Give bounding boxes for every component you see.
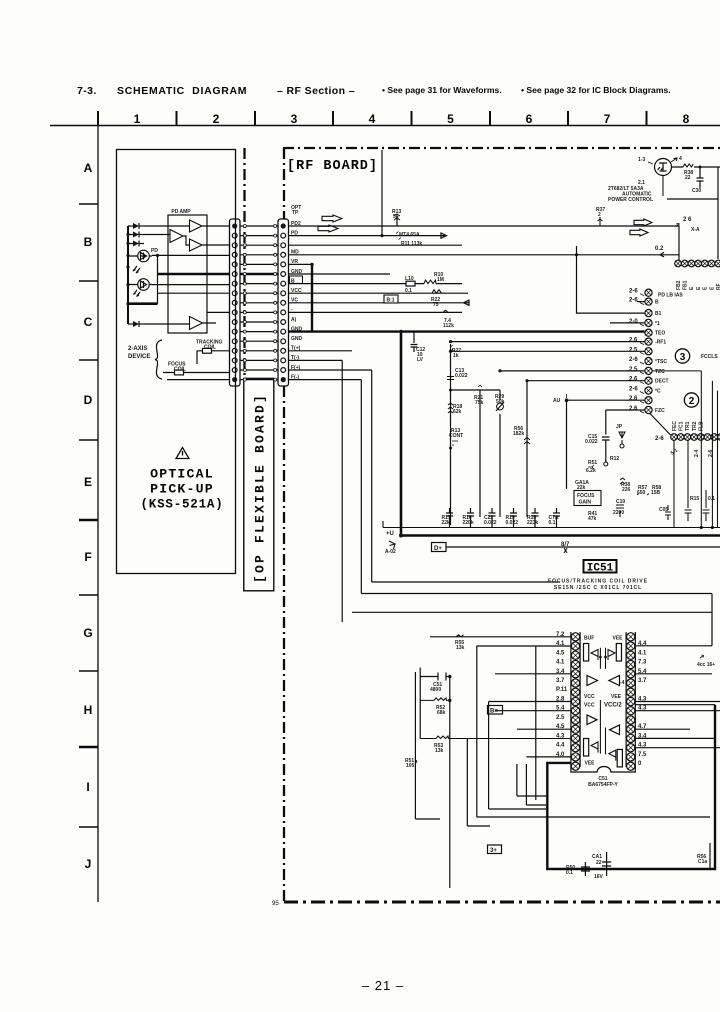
circled number 2	[684, 393, 698, 407]
svg-text:4: 4	[369, 112, 376, 126]
junction dots on chain	[449, 389, 452, 392]
top ruler ticks	[97, 111, 99, 126]
svg-text:[RF BOARD]: [RF BOARD]	[287, 159, 378, 174]
connector pin circles board side	[281, 223, 286, 228]
wire T(+) to feeder	[289, 350, 353, 352]
svg-text:GAIN: GAIN	[579, 500, 592, 506]
svg-text:7: 7	[604, 112, 611, 126]
feeder wire F(-) down	[360, 380, 362, 594]
svg-text:SE15N /2SC C X01CL 701CL: SE15N /2SC C X01CL 701CL	[554, 585, 642, 591]
IC51 boxed designator	[584, 560, 617, 573]
photodiode at y=226	[128, 225, 133, 227]
svg-text:• See page 31 for Waveforms.: • See page 31 for Waveforms.	[382, 85, 502, 95]
svg-text:-4: -4	[620, 680, 625, 686]
svg-text:22k: 22k	[442, 520, 451, 526]
svg-text:RF: RF	[716, 283, 720, 290]
vertical from laser to wire below	[662, 176, 664, 197]
IC51 left pins	[571, 633, 579, 641]
wire F(+) to feeder	[289, 369, 372, 371]
svg-text:7.5: 7.5	[638, 752, 647, 758]
svg-text:2: 2	[598, 212, 601, 218]
wire A	[289, 311, 463, 313]
svg-text:R11 113k: R11 113k	[401, 241, 422, 247]
svg-text:6: 6	[526, 112, 533, 126]
svg-text:2.6: 2.6	[629, 338, 638, 344]
svg-text:FCCLS: FCCLS	[701, 354, 718, 360]
capacitor C10 2200	[616, 505, 624, 517]
svg-text:FOCUS: FOCUS	[577, 493, 595, 499]
wire T(-) to feeder	[289, 359, 343, 361]
svg-text:BA6754FP-Y: BA6754FP-Y	[588, 782, 618, 788]
wire bottom pin 17	[167, 379, 230, 381]
bus wire y=593.5	[361, 594, 712, 646]
svg-text:0.022: 0.022	[585, 439, 598, 445]
flex wire contact circles	[243, 225, 246, 228]
svg-text:2-4: 2-4	[694, 450, 700, 457]
resistor R38 22	[683, 164, 693, 167]
svg-text:4.5: 4.5	[556, 650, 565, 656]
buffer resistor blocks top	[584, 644, 589, 662]
wire VC with resistor R22	[289, 292, 469, 294]
svg-text:4: 4	[679, 156, 682, 162]
svg-text:4.1: 4.1	[556, 660, 565, 666]
op-amp A4	[190, 317, 203, 330]
feeder wire T(-) down	[341, 360, 343, 622]
wire D1 to pin 3	[152, 254, 230, 256]
wire to A2/A3 chain	[144, 235, 230, 246]
svg-text:8: 8	[683, 112, 690, 126]
descending wires to IC51 area	[415, 646, 535, 888]
internal wires bottom	[600, 700, 605, 754]
internal wires top	[600, 648, 605, 669]
inductor L10 0.1	[406, 281, 415, 286]
connector CN101 board-side strip	[278, 219, 289, 386]
photodiode array left rail	[127, 226, 129, 324]
svg-text:0: 0	[638, 761, 642, 767]
svg-text:H: H	[84, 703, 93, 717]
wire PD to RF amp	[289, 233, 447, 238]
svg-text:68k: 68k	[437, 710, 446, 716]
resistor R38b 226	[620, 478, 625, 484]
svg-text:• See page 32 for IC Block Dia: • See page 32 for IC Block Diagrams.	[521, 85, 671, 95]
flexible-board wires between connector strips	[240, 225, 278, 227]
wire stub x382 from top border	[381, 150, 383, 236]
thick ground rail	[401, 534, 720, 537]
net wire AU down from pin	[565, 398, 569, 402]
IC51 left pin strip	[571, 632, 580, 767]
connector CN101 pickup-side strip	[230, 219, 241, 386]
svg-text:0.022: 0.022	[484, 520, 497, 526]
svg-text:+U: +U	[386, 531, 394, 537]
svg-text:VEE: VEE	[613, 636, 624, 642]
circled number 3	[675, 349, 689, 363]
svg-text:2-6: 2-6	[629, 357, 638, 363]
wire MD	[289, 244, 463, 246]
svg-text:PD: PD	[151, 248, 158, 254]
svg-text:A-02: A-02	[385, 549, 396, 555]
svg-text:AU: AU	[553, 398, 561, 404]
svg-text:R51: R51	[588, 460, 597, 466]
IC51 right pins	[627, 633, 635, 641]
component chain R27/C13/R18 vertical	[450, 344, 452, 525]
top ruler line	[50, 125, 720, 127]
svg-text:105: 105	[406, 763, 415, 769]
right edge caps row R15/0.1	[685, 490, 710, 521]
op-amp lower left	[587, 715, 597, 725]
svg-text:E: E	[703, 286, 709, 290]
svg-text:*C: *C	[655, 389, 661, 395]
diode JP with testpoint	[619, 432, 625, 444]
svg-text:650: 650	[637, 490, 646, 496]
svg-text:A): A)	[291, 317, 297, 323]
IC201 pin column circles	[645, 289, 652, 296]
wire F(-) to feeder	[289, 379, 362, 381]
svg-text:IC51: IC51	[587, 563, 614, 575]
resistor R55 13k on pin1 wire	[456, 635, 464, 637]
stub wires at IC pins	[577, 246, 645, 313]
left ruler line	[97, 126, 99, 903]
capacitor C30	[697, 167, 704, 188]
right edge return wires from IC pins	[652, 371, 701, 528]
wires from RC cluster into IC pins	[451, 342, 645, 381]
resistor R29 50k	[499, 390, 501, 517]
svg-text:2-6: 2-6	[655, 436, 664, 442]
svg-text:[OP FLEXIBLE BOARD]: [OP FLEXIBLE BOARD]	[253, 393, 268, 583]
wire box edge to pin 10	[207, 311, 230, 313]
photodiode at y=234.5	[128, 234, 133, 236]
left ruler ticks	[79, 203, 98, 205]
svg-text:7.3: 7.3	[638, 660, 647, 666]
bottom right connector CN row 2	[671, 434, 678, 441]
svg-text:P.11: P.11	[556, 687, 568, 693]
resistor R21 75k	[479, 390, 481, 517]
arrowhead + label 0.2 on VR wire	[660, 252, 664, 256]
svg-text:3.7: 3.7	[638, 678, 647, 684]
PD2 wire corner down to CN pin 1	[678, 226, 680, 260]
svg-text:7-3.: 7-3.	[77, 85, 97, 97]
top right connector CN (to servo board)	[675, 260, 682, 267]
svg-text:22: 22	[685, 175, 691, 181]
svg-text:22: 22	[596, 860, 602, 866]
svg-text:2.6: 2.6	[629, 396, 638, 402]
svg-text:2-6: 2-6	[708, 450, 714, 457]
svg-text:1M: 1M	[437, 277, 444, 283]
wire "-" with boxed net label B1	[289, 300, 470, 305]
op-amp lower right	[610, 725, 620, 735]
svg-text:F: F	[84, 550, 91, 564]
svg-text:2.6: 2.6	[629, 377, 638, 383]
svg-text:4800: 4800	[430, 687, 441, 693]
capacitor C51 4800 cluster	[419, 668, 421, 739]
svg-text:– 21 –: – 21 –	[362, 978, 404, 993]
svg-text:182k: 182k	[513, 431, 524, 437]
signal flow arrow pair near connector	[322, 215, 342, 222]
capacitor C13 0.022	[447, 377, 454, 380]
wire VR (0.2 feedback)	[289, 254, 680, 256]
OP flexible board label box	[244, 378, 274, 590]
svg-text:3.7: 3.7	[556, 678, 565, 684]
svg-text:2.5: 2.5	[629, 347, 638, 353]
svg-text:VCC/2: VCC/2	[604, 703, 622, 709]
svg-text:*TSC: *TSC	[655, 359, 667, 365]
svg-text:R12: R12	[610, 456, 619, 462]
connecting stubs to loop	[415, 796, 710, 826]
svg-text:SCHEMATIC DIAGRAM: SCHEMATIC DIAGRAM	[117, 85, 247, 97]
optical pick-up outline box	[117, 150, 236, 574]
diode symbols bottom	[591, 742, 598, 753]
svg-text:JP: JP	[616, 424, 623, 430]
op-amp A3	[190, 239, 203, 251]
svg-text:COIL: COIL	[204, 344, 216, 350]
resistor R18 62k	[448, 403, 453, 413]
wire laser to right rail	[672, 167, 720, 259]
op-amp A1	[190, 220, 203, 232]
svg-text:95: 95	[272, 901, 279, 907]
svg-text:R15: R15	[690, 496, 699, 502]
svg-text:2200: 2200	[613, 510, 624, 516]
svg-text:TR2: TR2	[692, 421, 698, 431]
bus wire y=612.3	[352, 611, 712, 613]
svg-text:FB1: FB1	[683, 280, 689, 290]
svg-text:PD AMP: PD AMP	[171, 209, 191, 215]
svg-text:226: 226	[622, 487, 631, 493]
resistor R53 13k on pin12 wire	[420, 736, 571, 739]
capacitor C12 below TEO wire	[411, 332, 418, 352]
svg-text:1k: 1k	[453, 353, 459, 359]
laser diode LD circle	[655, 159, 672, 176]
FOCUS GAIN box	[574, 491, 601, 506]
svg-text:J: J	[85, 857, 92, 871]
svg-text:A: A	[84, 161, 93, 175]
rail link to R21/R29	[451, 389, 501, 391]
svg-text:TR1: TR1	[685, 421, 691, 431]
resistor R51 6.2k	[588, 465, 594, 469]
thick feeder from GND bus down	[400, 332, 403, 536]
svg-text:TEO: TEO	[655, 331, 665, 337]
wires out of IC51 right pins	[635, 673, 712, 675]
svg-text:0.1: 0.1	[549, 520, 556, 526]
emission arrows of D1	[133, 266, 140, 273]
svg-text:PD LB IAS: PD LB IAS	[658, 293, 683, 299]
photodiode at y=324	[128, 323, 133, 325]
svg-text:E: E	[709, 286, 715, 290]
svg-text:0.1: 0.1	[566, 870, 573, 876]
svg-text:E: E	[696, 286, 702, 290]
thick wire to pin 6	[158, 273, 230, 276]
svg-text:55: 55	[393, 214, 399, 220]
svg-text:(KSS-521A): (KSS-521A)	[140, 497, 223, 511]
boxed net label 3+	[488, 845, 502, 854]
svg-text:4.4: 4.4	[638, 641, 647, 647]
svg-text:POWER CONTROL: POWER CONTROL	[608, 197, 653, 203]
diode symbols top	[591, 650, 598, 661]
svg-text:B: B	[84, 235, 93, 249]
svg-text:2-AXIS: 2-AXIS	[128, 346, 147, 352]
connector pin circles pickup side	[232, 223, 237, 228]
svg-text:0.1: 0.1	[708, 496, 715, 502]
svg-text:FC1: FC1	[679, 421, 685, 431]
svg-text:B:1: B:1	[387, 297, 395, 303]
wire FZC branch down with C15	[602, 410, 645, 462]
laser diode D1 (monitor) circle	[138, 250, 150, 262]
svg-text:75k: 75k	[475, 400, 484, 406]
brace for 2-axis device	[155, 340, 162, 379]
svg-text:E: E	[84, 475, 92, 489]
svg-text:PICK-UP: PICK-UP	[150, 481, 214, 496]
photodiode at y=243.5	[128, 243, 133, 245]
svg-text:2-6: 2-6	[629, 387, 638, 393]
RF board dash-dot border bottom	[284, 901, 720, 904]
svg-text:0.022: 0.022	[455, 373, 468, 379]
svg-text:C30: C30	[692, 188, 701, 194]
svg-text:OPTICAL: OPTICAL	[150, 467, 214, 482]
junction at B1 riser	[575, 253, 578, 256]
svg-text:LV: LV	[417, 357, 424, 363]
boxed net label D+	[432, 543, 447, 552]
svg-text:1: 1	[134, 112, 141, 126]
wire GND down thick	[289, 263, 313, 265]
svg-text:E: E	[689, 286, 695, 290]
svg-text:8/7: 8/7	[561, 542, 570, 548]
op-amp A2	[170, 230, 183, 243]
resistor R10 1M	[424, 280, 436, 284]
svg-text:223k: 223k	[527, 520, 538, 526]
svg-text:4.4: 4.4	[556, 743, 565, 749]
svg-text:VEE: VEE	[585, 761, 596, 767]
svg-text:B: B	[655, 300, 659, 306]
warning triangle symbol	[176, 448, 189, 459]
wire PD2 long to laser APC	[289, 225, 680, 227]
feeder from F(+) wire to bus 582	[371, 370, 373, 582]
svg-text:2.5: 2.5	[629, 367, 638, 373]
resistor R13 on PD2 line	[396, 216, 398, 226]
svg-text:CONT: CONT	[449, 433, 463, 439]
svg-text:47k: 47k	[588, 516, 597, 522]
thick stub wire bottom of rail	[128, 302, 158, 305]
svg-text:-RF1: -RF1	[655, 340, 666, 346]
svg-text:62k: 62k	[453, 409, 462, 415]
emission arrows of D2	[134, 290, 141, 297]
svg-text:C1a: C1a	[698, 859, 707, 865]
RF board dash-dot border top	[283, 147, 720, 149]
PD amp inner box	[168, 215, 207, 333]
IC51 body bottom with notch	[571, 767, 635, 773]
svg-text:5: 5	[447, 112, 454, 126]
svg-text:X-A: X-A	[691, 227, 700, 233]
wire VCC with L10/R10	[289, 283, 463, 285]
buffer resistor blocks bottom	[584, 739, 589, 757]
vertical wires from CN row2 down	[674, 441, 688, 528]
svg-text:2-6: 2-6	[629, 298, 638, 304]
wire rail to A1 and out to pin	[144, 225, 230, 227]
junction dots on rail	[126, 233, 129, 236]
svg-text:2-6: 2-6	[629, 289, 638, 295]
svg-text:MT4 65A: MT4 65A	[399, 232, 420, 238]
thick output wire loop	[547, 705, 715, 869]
resistor R52 68k	[420, 698, 450, 701]
svg-text:13k: 13k	[456, 645, 465, 651]
svg-text:2 6: 2 6	[683, 217, 692, 223]
diagonal wire FZC pin to CN row2	[650, 414, 671, 436]
svg-text:DECT: DECT	[655, 379, 669, 385]
long thin rail	[383, 527, 720, 529]
boxed net label B=	[488, 706, 503, 715]
svg-text:VEE: VEE	[611, 694, 622, 700]
wires into IC51 left pins	[430, 636, 571, 638]
svg-text:2.5: 2.5	[556, 715, 565, 721]
svg-text:FZC: FZC	[655, 408, 665, 414]
svg-text:220k: 220k	[463, 520, 474, 526]
wire bottom diode to A4	[144, 323, 216, 324]
svg-text:D: D	[84, 393, 93, 407]
svg-text:G: G	[83, 626, 92, 640]
bottom RC row R17 R16 C22 R19 R15 C7A	[446, 508, 453, 528]
svg-text:0.022: 0.022	[506, 520, 519, 526]
svg-text:C10: C10	[616, 499, 625, 505]
arrow pair mid (to laser)	[634, 219, 652, 226]
svg-text:1-3: 1-3	[638, 157, 645, 163]
wire to pin 8	[158, 292, 230, 294]
vertical link wire x=157.5	[157, 255, 159, 303]
RF board dash-dot border left	[283, 148, 285, 219]
svg-text:2-0: 2-0	[629, 319, 638, 325]
OP flexible board dash-dot border	[243, 148, 245, 377]
svg-text:13k: 13k	[435, 748, 444, 754]
focus coil component	[163, 372, 230, 374]
svg-text:VCC: VCC	[584, 694, 595, 700]
svg-text:D+: D+	[434, 546, 442, 552]
svg-text:6.2k: 6.2k	[586, 468, 596, 474]
svg-text:15B: 15B	[651, 490, 661, 496]
svg-text:4.1: 4.1	[638, 650, 647, 656]
testpoint circle on C15 branch	[604, 462, 608, 466]
svg-text:I: I	[86, 780, 89, 794]
wire D2 to pin 7	[152, 284, 230, 286]
wire B	[289, 273, 391, 275]
svg-text:BUF: BUF	[584, 636, 594, 642]
svg-text:16V: 16V	[594, 874, 604, 880]
svg-text:L10: L10	[405, 276, 414, 282]
svg-text:C: C	[84, 315, 93, 329]
resistor R37 on PD2 wire	[598, 217, 603, 226]
op-amp pair mid-top	[587, 676, 598, 686]
svg-text:3: 3	[680, 352, 686, 363]
capacitor R50 0.1 on output rail	[581, 862, 590, 876]
svg-text:2.6: 2.6	[629, 406, 638, 412]
svg-text:3+: 3+	[490, 848, 497, 854]
box around net label B	[290, 276, 303, 283]
svg-text:B1: B1	[655, 311, 662, 317]
resistor R56 182k	[526, 381, 528, 517]
arrow and label 4	[671, 158, 677, 162]
svg-text:*1: *1	[655, 321, 660, 327]
tracking coil component	[197, 350, 230, 352]
svg-text:4cc 16+: 4cc 16+	[697, 662, 715, 668]
laser diode D2 circle	[138, 279, 150, 291]
thick GND bus wire to IC201	[289, 330, 645, 332]
+B power entry symbol	[382, 521, 384, 528]
svg-text:TZC: TZC	[655, 369, 665, 375]
svg-text:B=: B=	[490, 709, 498, 715]
svg-text:2: 2	[213, 112, 220, 126]
svg-text:2: 2	[689, 396, 695, 407]
svg-text:3: 3	[291, 112, 298, 126]
svg-text:GND: GND	[291, 336, 303, 342]
svg-text:VCC: VCC	[584, 703, 595, 709]
svg-text:TP: TP	[292, 210, 299, 216]
bus wire y=582	[372, 581, 560, 583]
svg-text:0.2: 0.2	[655, 246, 664, 252]
